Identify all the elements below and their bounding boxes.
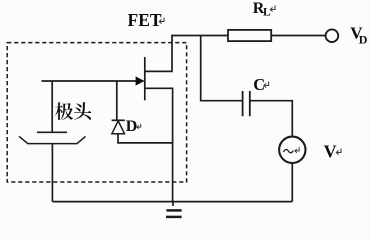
FET drain lead wire bbox=[145, 36, 172, 72]
svg-text:L: L bbox=[263, 6, 271, 18]
capacitor C right plate bbox=[249, 91, 251, 116]
paragraph mark inside source circle bbox=[295, 147, 299, 153]
paragraph mark after D bbox=[137, 124, 141, 129]
dashed enclosure box bbox=[7, 43, 186, 182]
paragraph mark after C bbox=[264, 82, 269, 88]
capacitor C left plate bbox=[242, 91, 244, 116]
label 极 (capsule) bbox=[55, 102, 73, 120]
diode D triangle bbox=[112, 121, 125, 134]
diode D cathode bar bbox=[112, 119, 125, 121]
wire: gate net horizontal bbox=[42, 80, 144, 82]
wire: capacitor branch bbox=[201, 36, 243, 101]
svg-text:D: D bbox=[359, 32, 368, 46]
top wire: drain to resistor bbox=[171, 35, 228, 37]
svg-text:C: C bbox=[253, 75, 265, 94]
wire: resistor to VD terminal bbox=[271, 35, 325, 37]
ground bar 2 bbox=[166, 216, 182, 219]
capsule bottom lead wire bbox=[51, 144, 53, 202]
FET channel bar bbox=[144, 57, 146, 100]
paragraph mark after V bbox=[336, 149, 341, 155]
VD terminal circle bbox=[326, 29, 339, 42]
AC source tilde symbol bbox=[284, 149, 294, 152]
paragraph mark after RL bbox=[270, 6, 275, 12]
FET source lead wire bbox=[145, 88, 173, 201]
diode D cathode lead wire bbox=[116, 81, 118, 120]
FET gate arrow bbox=[136, 76, 145, 85]
wire: source V to ground rail bbox=[291, 163, 293, 202]
paragraph mark after FET bbox=[159, 18, 164, 24]
wire: diode anode to FET source bbox=[117, 142, 172, 144]
resistor RL body bbox=[228, 30, 271, 41]
diode D anode lead wire bbox=[117, 134, 119, 143]
wire: capacitor to source V bbox=[250, 101, 292, 137]
bottom ground rail wire bbox=[52, 201, 292, 203]
ground stub bbox=[172, 202, 174, 206]
label 头 (capsule) bbox=[74, 102, 91, 119]
AC source V circle bbox=[279, 137, 305, 163]
capsule top lead wire bbox=[51, 81, 53, 132]
capsule top plate bbox=[37, 131, 67, 133]
ground bar 1 bbox=[166, 209, 181, 212]
svg-text:V: V bbox=[324, 141, 337, 161]
svg-text:FET: FET bbox=[128, 10, 162, 30]
capsule bent bottom plate bbox=[19, 136, 86, 143]
svg-text:D: D bbox=[126, 118, 138, 135]
